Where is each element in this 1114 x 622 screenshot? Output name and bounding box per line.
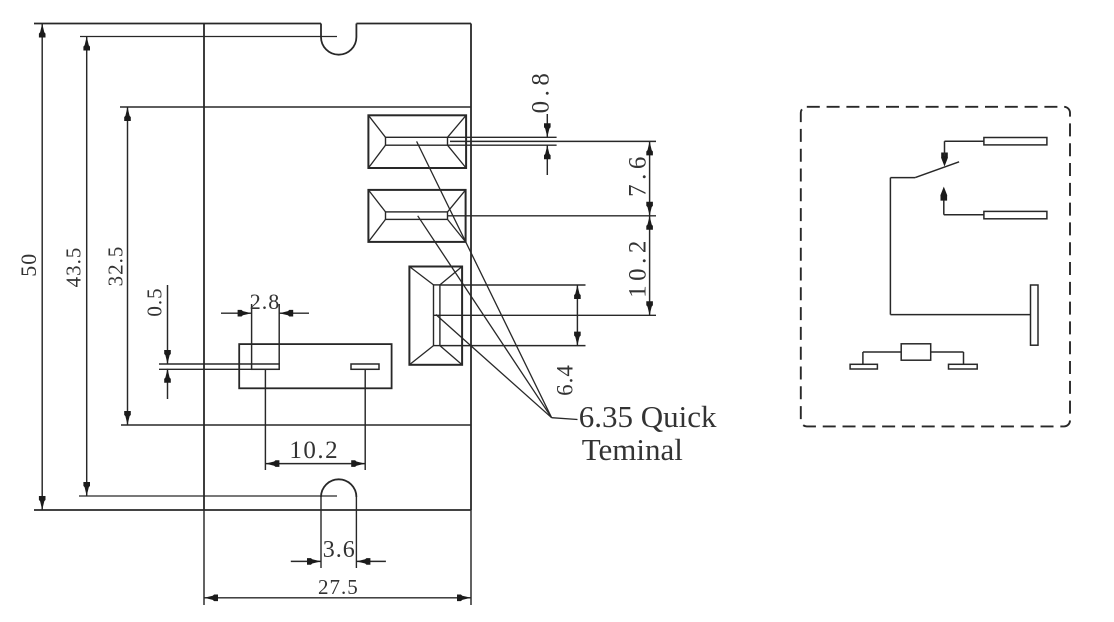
svg-text:3.6: 3.6: [323, 537, 356, 563]
svg-text:6.35 Quick: 6.35 Quick: [579, 399, 717, 434]
svg-text:50: 50: [16, 253, 41, 277]
svg-text:32.5: 32.5: [104, 246, 128, 287]
svg-text:43.5: 43.5: [62, 247, 86, 288]
svg-text:10.2: 10.2: [625, 236, 652, 298]
svg-text:7.6: 7.6: [625, 152, 652, 197]
svg-text:0.8: 0.8: [528, 69, 555, 114]
svg-text:27.5: 27.5: [318, 575, 359, 599]
svg-text:2.8: 2.8: [250, 289, 281, 314]
svg-text:0.5: 0.5: [143, 287, 167, 316]
svg-text:10.2: 10.2: [289, 437, 339, 464]
svg-text:6.4: 6.4: [552, 364, 577, 396]
svg-text:Teminal: Teminal: [582, 432, 683, 467]
